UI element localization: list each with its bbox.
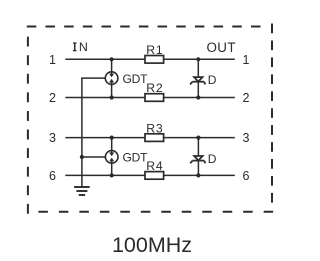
svg-text:2: 2	[49, 91, 56, 105]
gas discharge tube GDT1	[105, 72, 118, 85]
svg-text:GDT: GDT	[123, 151, 149, 165]
svg-text:2: 2	[243, 91, 250, 105]
ground	[74, 187, 90, 195]
resistor R4	[145, 172, 164, 180]
wire ground bus vertical	[81, 78, 83, 187]
svg-text:D: D	[208, 152, 217, 166]
svg-text:6: 6	[243, 169, 250, 183]
resistor R1	[145, 56, 164, 64]
dashed enclosure border right	[271, 24, 273, 203]
label IN	[73, 40, 88, 54]
svg-text:D: D	[208, 73, 217, 87]
svg-text:R1: R1	[146, 43, 163, 57]
svg-text:3: 3	[243, 131, 250, 145]
svg-text:OUT: OUT	[206, 40, 235, 55]
diode D2 (TVS)	[190, 156, 205, 163]
junction dot line2 x GDT1	[110, 95, 114, 99]
junction dot line2 x D1	[196, 95, 200, 99]
junction dot line3 x D2	[196, 136, 200, 140]
wire diode D2 branch	[197, 138, 199, 176]
dashed enclosure border top	[27, 26, 261, 28]
wire GDT2 top lead	[111, 138, 113, 151]
resistor R3	[145, 134, 164, 142]
resistor R2	[145, 94, 164, 102]
junction dot line6 x D2	[196, 173, 200, 177]
junction dot bus x GDT2 lead	[80, 155, 84, 159]
svg-text:GDT: GDT	[123, 72, 149, 86]
diode D1 (TVS)	[190, 77, 205, 84]
wire GDT2 bottom lead	[111, 163, 113, 175]
gas discharge tube GDT2	[105, 151, 118, 164]
svg-text:6: 6	[49, 169, 56, 183]
junction dot line3 x GDT2	[110, 136, 114, 140]
wire diode D1 branch	[197, 59, 199, 97]
wire GDT1 top lead	[111, 59, 113, 72]
wire line 3	[65, 137, 235, 139]
dashed enclosure border left	[27, 37, 29, 214]
junction dot line6 x GDT2	[110, 173, 114, 177]
wire line 6	[65, 174, 235, 176]
junction dot line1 x GDT1	[110, 57, 114, 61]
dashed enclosure border bottom	[38, 211, 273, 213]
svg-text:1: 1	[243, 53, 250, 67]
svg-text:R4: R4	[146, 159, 163, 173]
junction dot line1 x D1	[196, 57, 200, 61]
svg-text:R2: R2	[146, 81, 163, 95]
wire GDT1 left lead	[81, 77, 105, 79]
wire line 2	[65, 97, 235, 99]
wire line 1	[65, 58, 235, 60]
svg-text:100MHz: 100MHz	[112, 233, 192, 257]
svg-text:3: 3	[49, 131, 56, 145]
wire GDT1 bottom lead	[111, 84, 113, 97]
wire GDT2 left lead	[81, 156, 105, 158]
svg-text:R3: R3	[146, 121, 163, 135]
svg-text:1: 1	[49, 53, 56, 67]
svg-text:N: N	[79, 40, 88, 54]
